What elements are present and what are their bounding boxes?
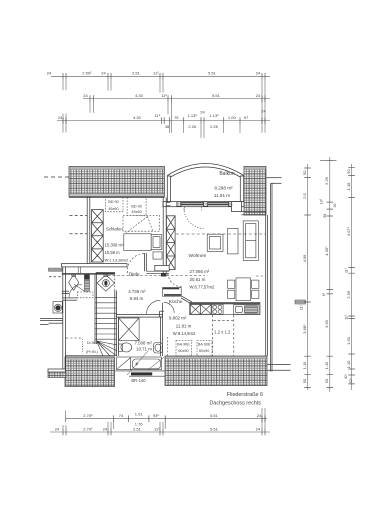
svg-text:4.30: 4.30 xyxy=(133,115,142,120)
svg-text:97: 97 xyxy=(244,115,249,120)
kitchen dashed boundary xyxy=(166,337,168,356)
svg-text:Schlafen: Schlafen xyxy=(106,226,123,231)
chair left 1 xyxy=(228,280,235,288)
svg-text:45x60: 45x60 xyxy=(131,210,141,214)
bath east wall xyxy=(160,303,162,356)
svg-text:50: 50 xyxy=(302,378,307,383)
small south-west roof piece xyxy=(48,372,66,378)
svg-text:1.00: 1.00 xyxy=(228,115,237,120)
svg-text:(Pr.90.): (Pr.90.) xyxy=(86,350,98,354)
stove with burners xyxy=(212,304,223,314)
svg-text:24: 24 xyxy=(101,71,106,76)
living room kneewall dashed xyxy=(176,233,266,235)
south roof hatch band left section xyxy=(65,357,115,387)
cabinet X 1 xyxy=(190,305,200,315)
svg-text:24: 24 xyxy=(256,426,261,431)
svg-text:2.70⁵: 2.70⁵ xyxy=(83,413,93,418)
bath wall dashed continuation up xyxy=(114,275,116,291)
kneewall dashed line 2 xyxy=(70,233,88,235)
skylight dashed lines kitchen xyxy=(213,315,234,356)
svg-text:BD 90: BD 90 xyxy=(131,204,142,208)
svg-text:Balkon: Balkon xyxy=(219,171,235,177)
svg-text:2.26: 2.26 xyxy=(210,124,219,129)
svg-text:11⁵: 11⁵ xyxy=(345,314,349,320)
svg-text:1.13⁵: 1.13⁵ xyxy=(188,113,198,118)
svg-text:15.58 m: 15.58 m xyxy=(105,250,121,255)
wall lines right of Schlafen door xyxy=(146,271,169,273)
stair treads xyxy=(95,298,117,340)
kitchen west wall xyxy=(160,311,164,317)
dormer label box 1 xyxy=(105,197,123,212)
south-east corner eave lines xyxy=(267,364,291,366)
shower (crossed square) xyxy=(119,318,140,341)
svg-text:93⁵: 93⁵ xyxy=(153,413,159,418)
WC south wall xyxy=(62,291,78,300)
svg-text:5.51: 5.51 xyxy=(208,71,217,76)
nightstand xyxy=(153,252,162,259)
svg-text:2.26: 2.26 xyxy=(324,176,329,185)
right dim chain 2 top tick wide xyxy=(320,159,337,161)
window jamb in Schlafen wall xyxy=(78,267,80,273)
svg-text:24: 24 xyxy=(47,71,52,76)
Wohnen door arc xyxy=(168,274,181,287)
svg-text:Dachgeschoss rechts: Dachgeschoss rechts xyxy=(209,401,261,407)
svg-text:75: 75 xyxy=(174,115,179,120)
bath window dark sill xyxy=(131,372,152,375)
bath washbasin xyxy=(154,343,163,354)
right dim chain 1 ticks xyxy=(304,168,311,387)
balcony right wall xyxy=(240,176,243,203)
kitchen counter xyxy=(190,303,261,315)
svg-text:50: 50 xyxy=(302,170,307,175)
svg-text:W:1.13,38m2: W:1.13,38m2 xyxy=(105,258,129,263)
top row2 dim texts xyxy=(83,93,261,98)
svg-text:D1: D1 xyxy=(204,203,208,207)
svg-text:10⁵: 10⁵ xyxy=(320,198,324,204)
svg-text:1.2 x 1.2: 1.2 x 1.2 xyxy=(214,330,231,335)
stair left edge xyxy=(95,274,97,344)
svg-text:11.91 m: 11.91 m xyxy=(214,193,230,198)
svg-text:45x60: 45x60 xyxy=(108,207,118,211)
neighbour wall stub east (hatched) xyxy=(295,300,306,304)
svg-text:9.84 m: 9.84 m xyxy=(130,296,144,301)
svg-text:11⁵: 11⁵ xyxy=(153,71,159,76)
svg-text:24: 24 xyxy=(261,109,266,114)
right dim chain 2 line xyxy=(329,157,331,392)
svg-text:24: 24 xyxy=(103,426,108,431)
svg-text:8.298 m²: 8.298 m² xyxy=(214,186,233,191)
top dim extension verticals xyxy=(63,80,265,138)
svg-text:7.508 m²: 7.508 m² xyxy=(135,340,153,345)
svg-text:Dr.90: Dr.90 xyxy=(87,341,96,345)
west wall lower xyxy=(63,267,66,372)
bottom dim ticks row B xyxy=(63,429,265,436)
south roof hatch band right section xyxy=(165,356,267,386)
svg-text:W:8.14,9m2: W:8.14,9m2 xyxy=(173,331,196,336)
bath south wall lines xyxy=(115,371,165,376)
wall line under north band xyxy=(69,196,165,198)
svg-text:27.066 m²: 27.066 m² xyxy=(190,269,210,274)
bottom dim row A line xyxy=(66,418,267,420)
bed xyxy=(124,234,162,251)
coffee table xyxy=(228,229,238,254)
window swing diagonals xyxy=(127,351,164,375)
window glass bar 1 xyxy=(181,202,204,203)
north-east corner pillar xyxy=(232,202,242,212)
WC north wall dark band xyxy=(62,273,115,274)
neighbour wall stub west lower xyxy=(40,318,63,324)
roof window dashed projection bedroom xyxy=(123,215,160,233)
Schlafen south wall xyxy=(62,264,170,271)
bottom rowB dim texts xyxy=(55,426,261,431)
svg-text:60x90: 60x90 xyxy=(199,349,209,353)
svg-text:D1: D1 xyxy=(177,203,181,207)
svg-text:24: 24 xyxy=(257,413,262,418)
svg-text:2.5: 2.5 xyxy=(302,192,307,198)
bath toilet xyxy=(119,343,132,352)
right dim chain 2 ticks xyxy=(327,160,334,387)
svg-text:1.15: 1.15 xyxy=(324,361,329,370)
svg-text:2.51: 2.51 xyxy=(133,426,142,431)
top row3 dim texts xyxy=(58,109,267,129)
top dim row 3 line xyxy=(57,120,270,122)
ridge dashed line left of north band xyxy=(44,176,69,178)
svg-text:BD 90: BD 90 xyxy=(108,200,119,204)
svg-text:58: 58 xyxy=(323,214,327,218)
Schlafen door leaf xyxy=(145,253,147,271)
svg-text:3.68⁵: 3.68⁵ xyxy=(302,324,307,334)
right dim chain 1 line xyxy=(307,164,309,390)
wall stub below shaft2 xyxy=(161,273,166,276)
WC door leaf xyxy=(74,284,84,291)
svg-text:1.10: 1.10 xyxy=(346,360,351,369)
dormer label box bottom 1 xyxy=(176,340,192,356)
washbasin niche west xyxy=(53,302,62,314)
svg-text:2.26: 2.26 xyxy=(188,124,197,129)
svg-text:BA 90E: BA 90E xyxy=(177,342,190,346)
svg-text:W:6.77,57m2: W:6.77,57m2 xyxy=(190,285,215,290)
top dim ticks row1 xyxy=(63,73,265,80)
svg-text:74: 74 xyxy=(119,413,124,418)
wall corner balcony to interior xyxy=(166,203,170,206)
svg-text:11⁵: 11⁵ xyxy=(300,304,304,310)
kitchen door arc xyxy=(164,302,175,313)
bath west wall xyxy=(115,291,119,357)
window post D1 xyxy=(177,202,181,207)
bath north wall xyxy=(117,314,163,317)
svg-text:1.15: 1.15 xyxy=(302,361,307,370)
top row1 dim texts xyxy=(47,71,261,76)
window post D3 xyxy=(229,202,233,207)
svg-text:3.59: 3.59 xyxy=(324,319,329,328)
svg-text:24: 24 xyxy=(256,71,261,76)
svg-text:D1: D1 xyxy=(229,203,233,207)
window post D2 xyxy=(204,202,208,207)
bottom rowA dim texts xyxy=(83,412,262,427)
south wall line above left hatch xyxy=(65,355,115,357)
svg-text:1.01: 1.01 xyxy=(135,412,144,417)
svg-text:11.81 m: 11.81 m xyxy=(176,324,192,329)
svg-text:24: 24 xyxy=(55,426,60,431)
top dim row 1 line xyxy=(51,75,270,77)
top dim ticks row3 xyxy=(63,117,265,124)
stair opening dotted line xyxy=(82,339,84,354)
svg-text:10.71 m: 10.71 m xyxy=(136,347,152,352)
dormer label box 2 xyxy=(127,197,146,215)
svg-text:52⁵: 52⁵ xyxy=(349,377,353,383)
top dim ticks row2 xyxy=(90,95,265,102)
stair winder treads xyxy=(97,341,117,356)
north-east corner step wall xyxy=(242,212,267,215)
south-west wall bottom xyxy=(48,356,66,372)
svg-text:1.13⁵: 1.13⁵ xyxy=(209,113,219,118)
svg-text:24: 24 xyxy=(256,93,261,98)
WC door arc xyxy=(69,284,82,297)
svg-text:9.802 m²: 9.802 m² xyxy=(169,315,187,320)
window glass bar 2 xyxy=(208,202,229,203)
WC bidet (diamond with circle) xyxy=(97,274,115,291)
chair left 2 xyxy=(228,290,235,298)
right chain3 dim texts xyxy=(344,169,353,384)
svg-text:15.308 m²: 15.308 m² xyxy=(105,243,124,248)
svg-text:30.61 m: 30.61 m xyxy=(190,277,206,282)
svg-text:6⁵: 6⁵ xyxy=(322,292,326,296)
balcony door dashed jambs xyxy=(185,207,202,211)
svg-text:24: 24 xyxy=(58,115,63,120)
svg-text:BA 90E: BA 90E xyxy=(198,342,211,346)
svg-text:4.07⁵: 4.07⁵ xyxy=(346,226,351,236)
svg-text:5.51: 5.51 xyxy=(210,413,219,418)
svg-text:24: 24 xyxy=(200,110,205,115)
wall between Schlafen and Wohnen xyxy=(163,197,166,273)
svg-text:11⁵: 11⁵ xyxy=(154,426,160,431)
svg-text:60x90: 60x90 xyxy=(178,349,188,353)
svg-text:Wohnen: Wohnen xyxy=(189,253,207,259)
sofa xyxy=(243,221,258,261)
chimney shaft 2 xyxy=(166,216,175,270)
balcony arch outer xyxy=(167,164,243,176)
svg-text:11⁵: 11⁵ xyxy=(161,93,167,98)
balcony door dotted arc xyxy=(184,209,205,229)
svg-text:2.51: 2.51 xyxy=(132,71,141,76)
north roof hatch band xyxy=(69,167,165,197)
svg-text:2.59⁵: 2.59⁵ xyxy=(82,71,92,76)
top dim row 2 line xyxy=(83,98,270,100)
svg-text:50: 50 xyxy=(324,378,329,383)
svg-text:Küche: Küche xyxy=(169,299,183,305)
svg-text:2.70⁵: 2.70⁵ xyxy=(83,426,93,431)
dormer label box bottom 2 xyxy=(197,340,212,356)
bottom dim extension verticals xyxy=(63,408,265,429)
stair dashed line xyxy=(66,337,83,339)
svg-text:Diele: Diele xyxy=(129,272,140,278)
svg-text:BR-140: BR-140 xyxy=(131,378,146,383)
svg-text:Fliederstraße 6: Fliederstraße 6 xyxy=(227,392,263,398)
right chain2 dim texts xyxy=(320,176,337,383)
svg-text:4.99: 4.99 xyxy=(302,254,307,263)
east eave line upper xyxy=(267,177,282,179)
kitchen diagonal wall xyxy=(181,296,192,303)
Schlafen door arc xyxy=(127,253,144,273)
balcony arch inner xyxy=(171,167,241,177)
chair right 1 xyxy=(252,280,259,288)
dining table xyxy=(228,278,259,301)
north-east roof hatch band (vertical) xyxy=(244,167,266,216)
chimney shaft 1 xyxy=(92,210,104,262)
kitchen sideboard xyxy=(163,288,182,297)
right dim chain 3 line xyxy=(351,164,353,390)
bathtub xyxy=(117,357,162,370)
WC toilet (diamond with cistern) xyxy=(69,274,79,291)
svg-text:4.30: 4.30 xyxy=(135,93,144,98)
svg-text:11⁵: 11⁵ xyxy=(155,113,161,118)
sink unit xyxy=(234,305,259,314)
chair right 2 xyxy=(252,290,259,298)
neighbour sill stub west upper (hatched) xyxy=(49,268,63,271)
svg-text:50: 50 xyxy=(346,169,351,174)
east eave line lower xyxy=(271,182,282,184)
svg-text:4.738 m²: 4.738 m² xyxy=(128,289,146,294)
svg-text:40⁵: 40⁵ xyxy=(344,373,348,379)
svg-text:5.51: 5.51 xyxy=(212,93,221,98)
svg-text:30: 30 xyxy=(333,204,337,208)
svg-text:24: 24 xyxy=(83,93,88,98)
east wall double xyxy=(266,183,272,371)
armchair xyxy=(207,234,223,251)
WC dashed shower tray xyxy=(77,292,93,298)
bottom dim ticks row A xyxy=(66,415,265,422)
cabinet X 2 xyxy=(201,305,211,315)
right chain1 dim texts xyxy=(300,170,307,383)
hallway dashed line xyxy=(49,276,63,278)
svg-text:11⁵: 11⁵ xyxy=(345,267,349,273)
svg-text:2.56: 2.56 xyxy=(346,290,351,299)
right dim chain 3 ticks xyxy=(348,167,355,384)
svg-text:5.51: 5.51 xyxy=(210,426,219,431)
bottom dim row B line xyxy=(50,431,270,433)
west wall upper (Schlafen) xyxy=(87,197,90,265)
bath door arc xyxy=(146,300,160,314)
svg-text:1.18: 1.18 xyxy=(346,182,351,191)
svg-text:38: 38 xyxy=(165,124,170,129)
WC partition stub (hatched) xyxy=(84,275,89,292)
living room north wall with windows xyxy=(163,202,244,211)
balcony left wall xyxy=(167,176,170,203)
kneewall dashed line 1 xyxy=(70,214,88,216)
svg-text:4.30⁵: 4.30⁵ xyxy=(324,246,329,256)
svg-text:1.93: 1.93 xyxy=(346,336,351,345)
